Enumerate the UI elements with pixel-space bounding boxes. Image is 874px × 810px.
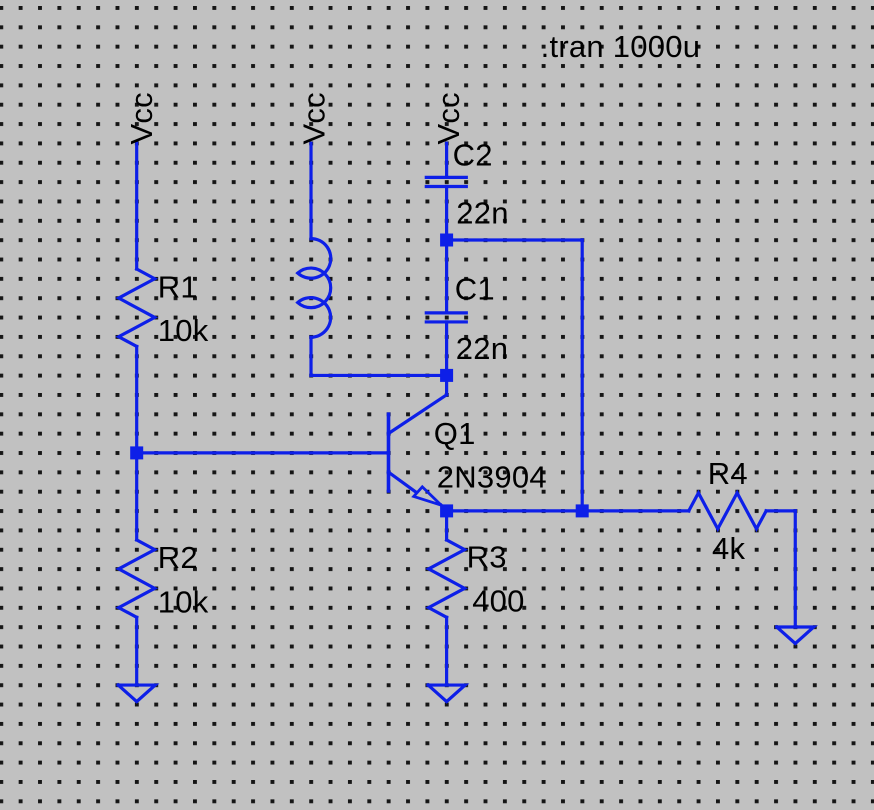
svg-text:R3: R3 <box>467 539 507 574</box>
svg-text:R2: R2 <box>158 540 198 575</box>
svg-text:R4: R4 <box>708 456 748 491</box>
svg-text:4k: 4k <box>712 531 745 566</box>
svg-text:10k: 10k <box>158 313 209 348</box>
svg-text:2N3904: 2N3904 <box>437 460 547 495</box>
svg-text:Q1: Q1 <box>434 416 476 451</box>
svg-text:C2: C2 <box>453 137 493 172</box>
svg-text:.tran 1000u: .tran 1000u <box>541 29 701 64</box>
svg-text:Vcc: Vcc <box>124 92 159 144</box>
svg-text:22n: 22n <box>456 331 508 366</box>
svg-text:R1: R1 <box>158 270 198 305</box>
svg-text:C1: C1 <box>455 272 495 307</box>
svg-text:Vcc: Vcc <box>297 92 332 144</box>
svg-text:10k: 10k <box>158 584 209 619</box>
svg-text:22n: 22n <box>456 196 508 231</box>
svg-text:400: 400 <box>472 583 524 618</box>
